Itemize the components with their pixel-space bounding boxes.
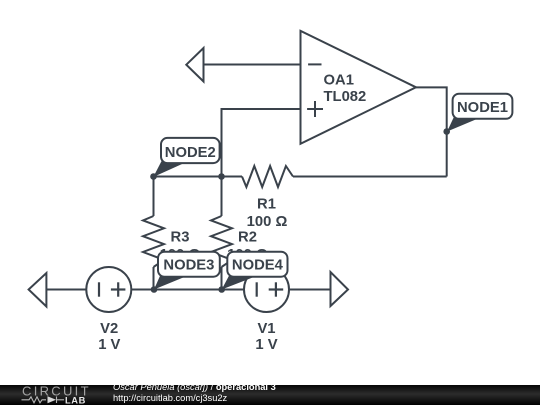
svg-text:1 V: 1 V bbox=[98, 337, 120, 353]
svg-text:Oscar Peñuela (oscarj) / opera: Oscar Peñuela (oscarj) / operacional 3 bbox=[113, 382, 276, 392]
svg-text:R1: R1 bbox=[257, 197, 276, 213]
svg-text:NODE1: NODE1 bbox=[457, 100, 508, 116]
svg-text:TL082: TL082 bbox=[324, 89, 367, 105]
svg-text:NODE4: NODE4 bbox=[232, 257, 284, 273]
svg-text:OA1: OA1 bbox=[324, 73, 354, 89]
svg-text:1 V: 1 V bbox=[255, 337, 277, 353]
svg-text:V2: V2 bbox=[100, 321, 118, 337]
svg-text:R3: R3 bbox=[171, 230, 190, 246]
svg-text:R2: R2 bbox=[238, 230, 257, 246]
svg-text:NODE3: NODE3 bbox=[163, 257, 214, 273]
svg-text:http://circuitlab.com/cj3su2z: http://circuitlab.com/cj3su2z bbox=[113, 393, 228, 403]
svg-text:100 Ω: 100 Ω bbox=[247, 214, 288, 230]
svg-text:V1: V1 bbox=[257, 321, 275, 337]
svg-text:LAB: LAB bbox=[65, 395, 86, 405]
svg-text:NODE2: NODE2 bbox=[165, 145, 216, 161]
